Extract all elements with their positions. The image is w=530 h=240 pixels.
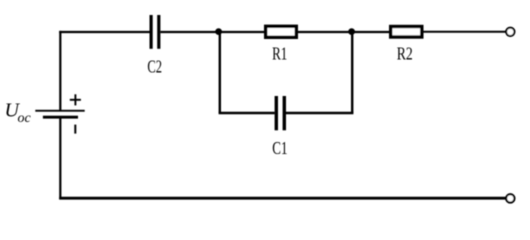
svg-text:oc: oc [18, 111, 32, 126]
svg-text:R2: R2 [397, 44, 413, 64]
svg-text:R1: R1 [272, 44, 287, 64]
svg-text:C1: C1 [272, 138, 287, 158]
svg-text:C2: C2 [147, 57, 162, 77]
